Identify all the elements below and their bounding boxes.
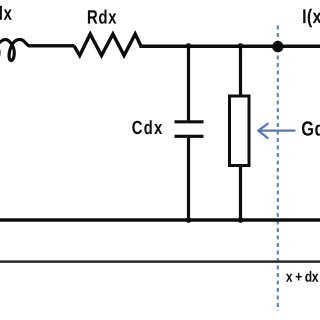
capacitor Cdx branch wire lower <box>187 138 190 220</box>
inductor Ldx <box>0 39 28 60</box>
label Cdx <box>132 120 162 134</box>
conductance Gdx box <box>230 96 250 166</box>
wire top rail <box>140 44 320 48</box>
node dot I(x+dx) <box>272 41 283 52</box>
label Gdx <box>302 121 320 136</box>
junction dot bottom capacitor <box>186 217 192 223</box>
wire top-left (inductor to resistor) <box>28 44 75 47</box>
resistor Rdx <box>74 34 141 56</box>
baseline wire <box>0 260 320 263</box>
capacitor Cdx plates <box>175 120 204 123</box>
junction dot top conductance <box>238 43 244 49</box>
bottom conductor wire <box>0 218 320 221</box>
capacitor Cdx branch wire upper <box>187 46 190 120</box>
label Rdx <box>88 10 117 24</box>
conductance Gdx branch wire lower <box>239 165 242 220</box>
junction dot top capacitor <box>186 43 192 49</box>
arrow to Gdx <box>258 124 294 138</box>
junction dot bottom conductance <box>238 217 244 223</box>
conductance Gdx branch wire upper <box>239 46 242 97</box>
label I(x+dx) <box>303 9 320 28</box>
label x + dx <box>286 271 318 282</box>
dashed section line x+dx <box>277 26 279 312</box>
label Ldx <box>0 6 12 20</box>
